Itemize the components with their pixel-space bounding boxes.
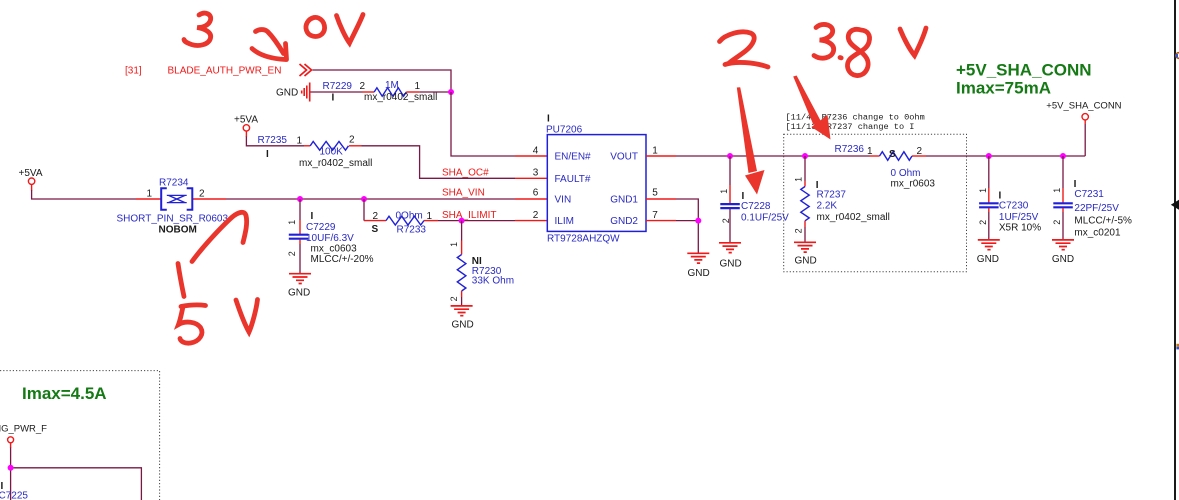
svg-text:2: 2: [721, 218, 731, 223]
svg-text:GND: GND: [688, 268, 710, 279]
svg-text:+5V_SHA_CONN: +5V_SHA_CONN: [1046, 100, 1121, 111]
svg-text:Imax=75mA: Imax=75mA: [956, 79, 1051, 98]
pin stub VOUT pin 1: [646, 155, 676, 157]
ground GND (R7237): [794, 242, 817, 266]
net label BLADE_AUTH_PWR_EN: [125, 66, 281, 77]
ground GND (rotated, at R7229 pin2): [276, 83, 310, 102]
note dotted box bottom-left: [0, 371, 160, 500]
svg-text:2: 2: [917, 146, 923, 157]
annotation handwritten 2 (top middle): [720, 32, 769, 67]
svg-text:2: 2: [978, 220, 988, 225]
svg-text:6: 6: [533, 188, 539, 199]
svg-text:S: S: [889, 149, 896, 160]
ground GND (IC): [687, 253, 709, 279]
node junction rail/C7229: [297, 196, 303, 202]
svg-text:GND2: GND2: [610, 216, 638, 227]
svg-text:SHA_OC#: SHA_OC#: [442, 167, 489, 178]
svg-text:VOUT: VOUT: [610, 152, 638, 163]
ground GND (R7230): [451, 306, 474, 331]
node junction VOUT/C7231: [1060, 153, 1066, 159]
annotation handwritten 3 (top left): [184, 13, 211, 45]
svg-text:R7234: R7234: [159, 178, 189, 189]
svg-text:2.2K: 2.2K: [817, 201, 838, 212]
node junction GND1/GND2: [695, 218, 701, 224]
svg-text:ILIM: ILIM: [555, 216, 574, 227]
svg-text:FAULT#: FAULT#: [555, 174, 591, 185]
svg-text:I: I: [332, 93, 335, 104]
svg-text:+5VA: +5VA: [234, 115, 258, 126]
svg-text:[11/4] R7236 change to 0ohm: [11/4] R7236 change to 0ohm: [786, 113, 925, 123]
ground GND (C7231): [1052, 240, 1074, 265]
svg-text:1: 1: [449, 242, 459, 247]
wire NG_PWR_F net: [11, 448, 142, 500]
svg-text:GND: GND: [795, 256, 817, 267]
pin stub FAULT# pin 3: [515, 177, 547, 179]
svg-text:mx_r0603: mx_r0603: [891, 178, 936, 189]
pin stub ILIM pin 2: [515, 220, 547, 222]
resistor R7230 33K (NI): [449, 221, 514, 306]
pin stub EN/EN# pin 4: [515, 155, 547, 157]
svg-text:7: 7: [652, 210, 658, 221]
svg-text:5: 5: [652, 188, 658, 199]
capacitor C7229: [287, 199, 374, 274]
ground GND (C7230): [977, 240, 1000, 265]
node junction VOUT/R7237: [802, 153, 808, 159]
svg-text:[11/13] R7237 change to I: [11/13] R7237 change to I: [786, 122, 915, 132]
power +5VA (above R7235): [234, 115, 258, 138]
svg-text:I: I: [547, 114, 550, 125]
svg-text:1: 1: [1052, 188, 1062, 193]
resistor R7236 0 Ohm: [835, 144, 936, 189]
svg-text:S: S: [372, 224, 379, 235]
svg-text:MLCC/+/-20%: MLCC/+/-20%: [311, 254, 374, 265]
svg-text:SHORT_PIN_SR_R0603: SHORT_PIN_SR_R0603: [117, 214, 229, 225]
svg-text:BLADE_AUTH_PWR_EN: BLADE_AUTH_PWR_EN: [168, 66, 282, 77]
svg-text:SHA_ILIMIT: SHA_ILIMIT: [442, 210, 496, 221]
svg-text:mx_r0402_small: mx_r0402_small: [817, 212, 890, 223]
node junction BLADE/R7229: [448, 89, 454, 95]
annotation arrow to C7228: [737, 87, 765, 194]
svg-text:1: 1: [287, 220, 297, 225]
resistor R7233 0Ohm: [364, 211, 438, 236]
wire down to EN pin: [451, 92, 515, 156]
resistor R7234 SHORT_PIN_SR_R0603: [117, 178, 229, 236]
resistor R7237 2.2K: [794, 156, 890, 242]
annotation handwritten 3.8 V: [814, 24, 926, 75]
annotation handwritten 1: [178, 264, 184, 297]
node junction rail/R7233: [361, 196, 367, 202]
svg-text:2: 2: [533, 210, 539, 221]
svg-text:2: 2: [449, 296, 459, 301]
svg-text:1: 1: [427, 211, 433, 222]
svg-text:1: 1: [415, 81, 421, 92]
capacitor C7228: [719, 156, 789, 243]
svg-text:2: 2: [1052, 220, 1062, 225]
pin stub GND1 pin 5: [646, 198, 676, 200]
pin stub VIN pin 6: [515, 198, 547, 200]
resistor R7229 1M: [323, 80, 438, 104]
note dotted box R7236/R7237: [784, 134, 967, 272]
wire rail to R7233: [363, 199, 365, 221]
svg-text:10UF/6.3V: 10UF/6.3V: [306, 233, 354, 244]
svg-text:100K: 100K: [320, 147, 344, 158]
svg-text:2: 2: [349, 135, 355, 146]
wire R7233 to ILIM: [438, 220, 515, 222]
svg-text:1: 1: [719, 189, 729, 194]
node clipped symbol mid right: [1176, 344, 1179, 347]
svg-text:0.1UF/25V: 0.1UF/25V: [741, 213, 789, 224]
node junction ILIM/R7230: [459, 218, 465, 224]
svg-text:GND: GND: [720, 259, 742, 270]
ground GND (C7229): [288, 274, 311, 299]
svg-text:mx_r0402_small: mx_r0402_small: [364, 92, 437, 103]
svg-text:R7236: R7236: [835, 144, 865, 155]
wire +5VA main rail to VIN: [32, 190, 136, 199]
svg-text:GND1: GND1: [610, 195, 638, 206]
ground GND (C7228): [719, 243, 742, 270]
svg-text:2: 2: [360, 81, 366, 92]
svg-text:MLCC/+/-5%: MLCC/+/-5%: [1074, 215, 1132, 226]
svg-text:1: 1: [652, 145, 658, 156]
svg-text:22PF/25V: 22PF/25V: [1074, 203, 1119, 214]
svg-text:R7233: R7233: [397, 225, 427, 236]
svg-text:mx_r0402_small: mx_r0402_small: [299, 158, 372, 169]
op-amp / IC PU7206 RT9728AHZQW: [533, 114, 659, 245]
svg-text:0Ohm: 0Ohm: [396, 211, 423, 222]
capacitor C7231: [1052, 156, 1132, 240]
svg-text:+5V_SHA_CONN: +5V_SHA_CONN: [956, 61, 1092, 80]
wire VOUT net: [676, 155, 870, 157]
svg-text:R7237: R7237: [817, 190, 847, 201]
svg-text:PU7206: PU7206: [546, 125, 583, 136]
svg-text:C7229: C7229: [306, 222, 336, 233]
border frame right: [1174, 0, 1176, 500]
node arrow marker on border: [1171, 200, 1179, 210]
svg-text:Imax=4.5A: Imax=4.5A: [22, 384, 107, 403]
capacitor C7225 (clipped labels): [0, 481, 28, 500]
wire +5VA to R7235: [246, 137, 304, 146]
svg-text:33K Ohm: 33K Ohm: [472, 276, 514, 287]
svg-text:VIN: VIN: [555, 195, 572, 206]
note green +5V_SHA_CONN Imax=75mA: [956, 61, 1092, 98]
node junction VOUT/C7228: [727, 153, 733, 159]
annotation handwritten down-right arrow (top): [252, 30, 287, 60]
svg-text:I: I: [311, 211, 314, 222]
svg-text:2: 2: [287, 251, 297, 256]
svg-text:NG_PWR_F: NG_PWR_F: [0, 423, 47, 434]
power port NG_PWR_F circle: [8, 437, 14, 443]
svg-text:1: 1: [978, 188, 988, 193]
svg-text:1: 1: [297, 136, 303, 147]
svg-text:I: I: [266, 149, 269, 160]
svg-text:1: 1: [867, 146, 873, 157]
svg-text:2: 2: [199, 189, 205, 200]
svg-text:C7228: C7228: [741, 201, 771, 212]
svg-text:2: 2: [794, 228, 804, 233]
capacitor C7230: [978, 156, 1041, 240]
power +5VA (left): [19, 168, 43, 191]
svg-text:mx_c0201: mx_c0201: [1074, 227, 1121, 238]
wire GND1/GND2 to ground: [676, 199, 698, 253]
annotation handwritten 0V: [306, 15, 363, 44]
annotation handwritten up-right arrow (near NOBOM): [192, 212, 247, 261]
svg-text:+5VA: +5VA: [19, 168, 43, 179]
svg-text:GND: GND: [1052, 254, 1074, 265]
svg-text:[31]: [31]: [125, 66, 142, 77]
svg-text:C7230: C7230: [999, 200, 1029, 211]
svg-text:C7231: C7231: [1074, 189, 1104, 200]
svg-text:2: 2: [373, 211, 379, 222]
wire BLADE_AUTH_PWR_EN net: [313, 70, 452, 92]
svg-text:1M: 1M: [385, 80, 399, 91]
pin stub GND2 pin 7: [646, 220, 676, 222]
svg-text:EN/EN#: EN/EN#: [555, 152, 592, 163]
node clipped symbol top right: [1176, 53, 1179, 59]
resistor R7235 100K: [258, 135, 373, 170]
svg-text:1: 1: [147, 189, 153, 200]
svg-text:R7235: R7235: [258, 135, 288, 146]
svg-text:4: 4: [533, 145, 539, 156]
svg-text:R7229: R7229: [323, 81, 353, 92]
wire R7229 pin1 to junction: [420, 91, 451, 93]
svg-text:mx_c0603: mx_c0603: [311, 244, 358, 255]
svg-text:GND: GND: [288, 288, 310, 299]
svg-text:1UF/25V: 1UF/25V: [999, 212, 1039, 223]
svg-text:GND: GND: [977, 254, 999, 265]
svg-text:C7225: C7225: [0, 491, 28, 500]
wire R7229 net to ground: [311, 91, 363, 93]
svg-text:3: 3: [533, 167, 539, 178]
svg-text:1: 1: [794, 177, 804, 182]
annotation arrow to R7237 box: [793, 76, 830, 140]
svg-text:GND: GND: [452, 320, 474, 331]
svg-text:GND: GND: [276, 88, 298, 99]
off-page connector chevron: [300, 64, 312, 76]
svg-text:X5R 10%: X5R 10%: [999, 223, 1041, 234]
node junction NG_PWR_F: [8, 465, 14, 471]
svg-text:SHA_VIN: SHA_VIN: [442, 188, 485, 199]
svg-text:NOBOM: NOBOM: [159, 225, 197, 236]
power port +5V_SHA_CONN: [1046, 100, 1121, 120]
wire R7235 to FAULT#: [362, 146, 516, 179]
annotation handwritten 5 V: [179, 300, 258, 344]
svg-text:RT9728AHZQW: RT9728AHZQW: [547, 234, 620, 245]
node junction VOUT/C7230: [986, 153, 992, 159]
